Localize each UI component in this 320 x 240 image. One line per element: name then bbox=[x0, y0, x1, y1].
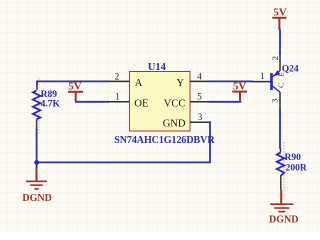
svg-text:SN74AHC1G126DBVR: SN74AHC1G126DBVR bbox=[114, 135, 215, 146]
pin number 5 bbox=[197, 92, 202, 102]
designator U14 bbox=[148, 62, 167, 73]
pin 5 (VCC) stub bbox=[190, 101, 210, 103]
emitter diagonal with arrow to bar bbox=[272, 71, 280, 77]
emitter pin (top) bbox=[279, 53, 281, 71]
svg-text:1: 1 bbox=[260, 71, 265, 81]
collector diagonal bbox=[272, 86, 280, 92]
pin name E (rotated) bbox=[276, 72, 285, 77]
svg-text:4: 4 bbox=[197, 71, 202, 81]
pin number 2 bbox=[115, 71, 120, 81]
pin name Y bbox=[177, 78, 185, 89]
base pin bbox=[252, 81, 271, 83]
wire: GND pin to ground rail bbox=[37, 122, 210, 162]
svg-text:VCC: VCC bbox=[164, 99, 186, 110]
svg-text:A: A bbox=[135, 78, 143, 89]
svg-text:200R: 200R bbox=[286, 163, 307, 173]
svg-text:3: 3 bbox=[198, 112, 203, 122]
comment SN74AHC1G126DBVR bbox=[114, 135, 215, 146]
wire: Y pin to Q24 base bbox=[210, 80, 252, 82]
svg-text:2: 2 bbox=[115, 71, 120, 81]
pin number 3 (collector, rotated) bbox=[269, 99, 279, 103]
pin name A bbox=[135, 78, 143, 89]
op-amp U14 body (buffer IC rectangle) bbox=[130, 72, 191, 132]
svg-text:5V: 5V bbox=[273, 7, 287, 19]
svg-text:GND: GND bbox=[163, 118, 186, 129]
ground DGND (right) bbox=[269, 190, 298, 225]
svg-text:C: C bbox=[276, 83, 285, 88]
pin name C (rotated) bbox=[276, 83, 285, 88]
wire: Q24 collector to R90 bbox=[279, 110, 281, 148]
svg-text:R89: R89 bbox=[41, 90, 58, 100]
resistor R90 bbox=[277, 148, 284, 190]
wire: 5V to Q24 emitter pin bbox=[279, 30, 281, 53]
collector pin (bottom) bbox=[279, 92, 281, 110]
guide line (salmon dotted) near R89 bbox=[38, 78, 40, 134]
pin name VCC bbox=[164, 99, 186, 110]
pin name GND bbox=[163, 118, 186, 129]
power port 5V (left, at OE) bbox=[68, 81, 83, 102]
power port 5V (at VCC) bbox=[232, 80, 247, 101]
junction (node at R89 / GND rail) bbox=[34, 160, 39, 165]
wire: junction to DGND bbox=[36, 162, 38, 168]
designator Q24 bbox=[282, 65, 299, 75]
pin 1 (OE) stub bbox=[108, 101, 129, 103]
resistor R89 bbox=[33, 84, 40, 130]
pin number 4 bbox=[197, 71, 202, 81]
svg-text:R90: R90 bbox=[285, 153, 302, 163]
designator R90 bbox=[285, 153, 302, 163]
designator R89 bbox=[41, 90, 58, 100]
ground DGND (left) bbox=[22, 167, 51, 204]
pin number 3 bbox=[198, 112, 203, 122]
svg-text:DGND: DGND bbox=[22, 193, 51, 204]
svg-text:OE: OE bbox=[134, 99, 148, 110]
svg-text:Y: Y bbox=[177, 78, 185, 89]
svg-text:U14: U14 bbox=[148, 62, 167, 73]
pin 3 (GND) stub bbox=[190, 121, 210, 123]
pin 4 (Y) stub bbox=[190, 80, 210, 82]
svg-text:5: 5 bbox=[197, 92, 202, 102]
svg-text:5V: 5V bbox=[233, 80, 247, 92]
svg-text:2: 2 bbox=[270, 56, 280, 60]
wire: 5V to OE pin bbox=[76, 101, 108, 103]
svg-text:3: 3 bbox=[269, 99, 279, 103]
power port 5V (top right, at Q24 emitter) bbox=[272, 7, 286, 30]
pin number 1 (base) bbox=[260, 71, 265, 81]
svg-text:5V: 5V bbox=[68, 81, 82, 93]
svg-text:1: 1 bbox=[115, 92, 120, 102]
svg-text:DGND: DGND bbox=[269, 214, 298, 225]
value 200R bbox=[286, 163, 307, 173]
pin 2 (A) stub bbox=[108, 80, 129, 82]
value 4.7K bbox=[41, 100, 61, 110]
svg-text:4.7K: 4.7K bbox=[41, 100, 61, 110]
wire: net from pin A to R89 top (horizontal + corner) bbox=[37, 81, 108, 84]
wire: R89 bottom to junction bbox=[36, 130, 38, 163]
guide line (salmon dotted) near R90 bbox=[283, 142, 285, 197]
pin name OE bbox=[134, 99, 148, 110]
transistor Q24 (PNP) bbox=[252, 53, 280, 110]
base bar bbox=[270, 73, 273, 90]
wire: VCC pin to 5V bbox=[210, 101, 241, 103]
pin number 2 (emitter, rotated) bbox=[270, 56, 280, 60]
pin number 1 bbox=[115, 92, 120, 102]
svg-text:Q24: Q24 bbox=[282, 65, 299, 75]
